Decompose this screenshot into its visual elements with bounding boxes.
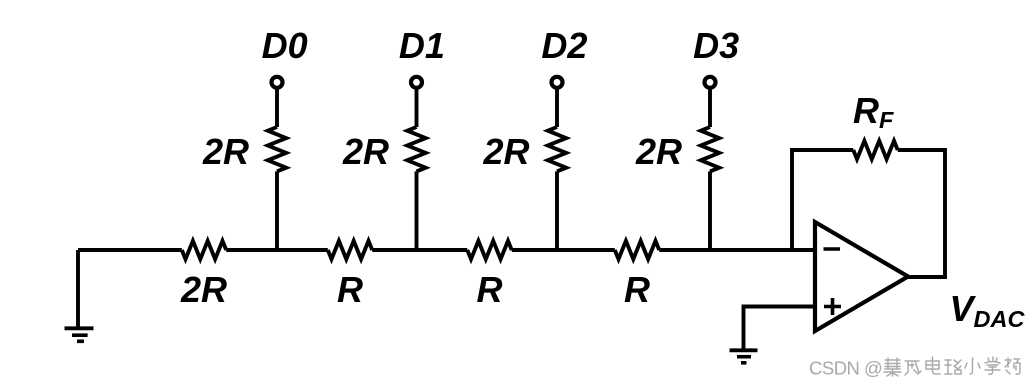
- svg-text:D3: D3: [693, 25, 739, 66]
- watermark CJK char 路: [945, 360, 961, 374]
- ground (op-amp + input): [730, 350, 758, 363]
- resistor RF (feedback): [853, 141, 897, 159]
- wire: main horizontal rail with series resistors: [78, 248, 815, 252]
- terminal circle D2: [552, 77, 563, 88]
- watermark CJK char 电: [926, 357, 940, 374]
- resistor R (ladder series, segment 3): [467, 241, 511, 259]
- node D2 branch wire: [555, 87, 559, 250]
- resistor R (ladder series, segment 4): [615, 241, 659, 259]
- wire: non-inverting input to ground: [744, 307, 816, 350]
- svg-text:R: R: [477, 269, 503, 310]
- svg-text:R: R: [624, 269, 650, 310]
- wire: left termination drop to ground: [76, 250, 80, 327]
- resistor 2R (ladder series, segment 1): [182, 241, 226, 259]
- svg-text:R: R: [337, 269, 363, 310]
- wire: feedback loop: [792, 150, 945, 277]
- svg-text:2R: 2R: [342, 131, 389, 172]
- resistor R (ladder series, segment 2): [328, 241, 372, 259]
- watermark CJK char 集: [884, 358, 901, 376]
- resistor 2R (D2 branch): [548, 127, 566, 171]
- svg-text:D1: D1: [399, 25, 445, 66]
- op-amp U1: [815, 222, 908, 331]
- op-amp plus pin mark: [824, 298, 841, 315]
- svg-text:VDAC: VDAC: [950, 288, 1026, 332]
- watermark CJK char 学: [985, 357, 1000, 374]
- node D1 branch wire: [415, 87, 419, 250]
- svg-text:CSDN @: CSDN @: [809, 358, 882, 379]
- svg-text:2R: 2R: [202, 131, 249, 172]
- resistor 2R (D3 branch): [701, 127, 719, 171]
- svg-text:2R: 2R: [180, 269, 227, 310]
- ground (left termination): [65, 328, 94, 341]
- svg-text:2R: 2R: [482, 131, 529, 172]
- watermark CJK char 成: [905, 361, 921, 375]
- resistor 2R (D1 branch): [407, 127, 425, 171]
- watermark CJK char 鸡: [1005, 358, 1020, 374]
- terminal circle D3: [705, 77, 716, 88]
- node D3 branch wire: [708, 87, 712, 250]
- op-amp minus pin mark: [824, 247, 841, 251]
- svg-text:2R: 2R: [635, 131, 682, 172]
- svg-text:D2: D2: [541, 25, 587, 66]
- resistor 2R (D0 branch): [268, 127, 286, 171]
- node D0 branch wire: [275, 87, 279, 250]
- watermark CJK char 小: [965, 358, 980, 374]
- terminal circle D0: [272, 77, 283, 88]
- svg-text:D0: D0: [262, 25, 308, 66]
- terminal circle D1: [411, 77, 422, 88]
- svg-text:RF: RF: [853, 90, 894, 133]
